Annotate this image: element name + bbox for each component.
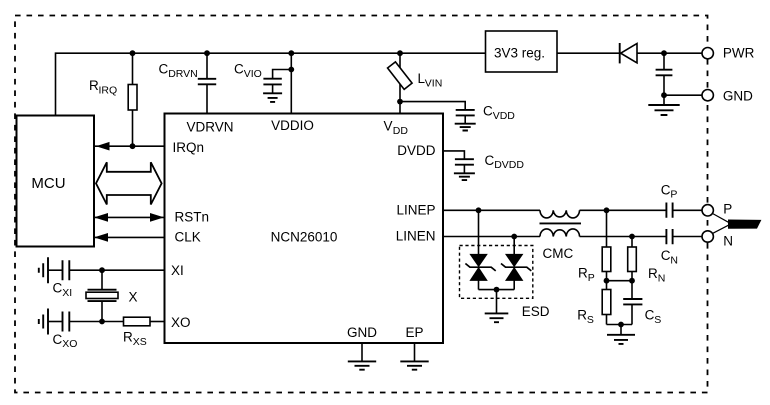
svg-text:C: C bbox=[485, 153, 495, 168]
capacitor CDRVN bbox=[206, 53, 208, 78]
arrowhead IRQn (into MCU) bbox=[96, 142, 110, 151]
ground (ESD) bbox=[496, 290, 498, 313]
svg-text:LINEN: LINEN bbox=[396, 229, 436, 244]
svg-text:IRQn: IRQn bbox=[173, 140, 205, 155]
svg-text:NCN26010: NCN26010 bbox=[271, 230, 338, 245]
arrowhead CLK (into MCU) bbox=[94, 233, 108, 242]
svg-text:MCU: MCU bbox=[31, 175, 65, 192]
terminal GND bbox=[702, 90, 713, 101]
capacitor CXI bbox=[48, 269, 62, 271]
node: rail-VDDIO junction bbox=[288, 50, 294, 56]
svg-text:XI: XI bbox=[62, 287, 72, 299]
capacitor CP bbox=[666, 203, 672, 218]
svg-text:DRVN: DRVN bbox=[168, 68, 198, 80]
svg-text:C: C bbox=[645, 308, 655, 323]
node: LINEN-ESD junction bbox=[511, 234, 517, 240]
wire: CLK line bbox=[95, 236, 165, 238]
svg-text:RSTn: RSTn bbox=[175, 210, 210, 225]
svg-text:C: C bbox=[661, 182, 671, 197]
capacitor CN bbox=[666, 229, 672, 244]
svg-text:VDRVN: VDRVN bbox=[186, 120, 233, 135]
svg-text:S: S bbox=[587, 314, 594, 326]
node: LINEN-RN junction bbox=[629, 234, 635, 240]
svg-text:R: R bbox=[578, 266, 588, 281]
svg-text:LINEP: LINEP bbox=[396, 202, 435, 217]
wire: IRQn line bbox=[95, 145, 165, 147]
svg-text:R: R bbox=[123, 330, 133, 345]
capacitor CDVDD with ground bbox=[443, 151, 464, 159]
capacitor CVDD with ground bbox=[400, 102, 465, 110]
node: RN tie junction bbox=[629, 278, 635, 284]
ground (PWR return) bbox=[663, 95, 665, 104]
ground (XI side, rotated) bbox=[39, 257, 48, 283]
node: ESD ground junction bbox=[494, 287, 500, 293]
node: CVIO tap junction bbox=[288, 67, 294, 73]
resistor RN bbox=[631, 237, 633, 248]
svg-text:R: R bbox=[648, 266, 658, 281]
svg-text:C: C bbox=[483, 104, 493, 119]
node: rail-CDRVN junction bbox=[204, 50, 210, 56]
svg-text:GND: GND bbox=[347, 325, 377, 340]
svg-text:VIN: VIN bbox=[425, 77, 443, 89]
svg-text:VDD: VDD bbox=[493, 110, 516, 122]
svg-text:N: N bbox=[670, 254, 678, 266]
wire: RP-RN tie bbox=[607, 280, 633, 282]
svg-text:XI: XI bbox=[171, 263, 184, 278]
svg-text:R: R bbox=[577, 308, 587, 323]
wire: regulator to PWR terminal bbox=[557, 52, 702, 54]
SPI bus double arrow bbox=[96, 162, 162, 204]
svg-text:PWR: PWR bbox=[723, 46, 755, 61]
diode D1 bbox=[619, 43, 621, 63]
node: LINEP-ESD junction bbox=[476, 207, 482, 213]
svg-text:C: C bbox=[661, 248, 671, 263]
TVS diode (N line) bbox=[513, 237, 515, 255]
svg-text:DVDD: DVDD bbox=[397, 143, 436, 158]
wire: MCU top to 3V3 supply rail bbox=[56, 53, 486, 115]
svg-text:R: R bbox=[89, 78, 99, 93]
arrowhead RSTn left bbox=[94, 213, 108, 222]
terminal PWR bbox=[702, 48, 713, 59]
ground (GND pin) bbox=[361, 343, 363, 361]
node: cap-ground junction bbox=[661, 92, 667, 98]
MCU U2 bbox=[17, 116, 95, 247]
wire: VDD column bbox=[399, 53, 401, 113]
node: rail-LVIN junction bbox=[397, 50, 403, 56]
wire: LINEP line bbox=[443, 209, 666, 211]
node: LINEP-RP junction bbox=[604, 207, 610, 213]
node: termination ground junction bbox=[618, 322, 624, 328]
svg-text:N: N bbox=[658, 272, 666, 284]
svg-text:CMC: CMC bbox=[543, 246, 574, 261]
node: LVIN-CVDD junction bbox=[397, 99, 403, 105]
resistor RIRQ bbox=[132, 53, 134, 146]
svg-text:C: C bbox=[159, 62, 169, 77]
TVS diode (P line) bbox=[478, 210, 480, 254]
svg-text:P: P bbox=[723, 201, 732, 216]
ground (EP pin) bbox=[414, 343, 416, 361]
inductor CMC (common-mode choke) bbox=[540, 210, 580, 218]
twisted pair cable bbox=[713, 214, 729, 234]
svg-text:P: P bbox=[588, 272, 595, 284]
node: RIRQ-IRQn junction bbox=[130, 143, 136, 149]
svg-text:GND: GND bbox=[723, 89, 753, 104]
svg-text:DVDD: DVDD bbox=[494, 159, 524, 171]
ground (XO side, rotated) bbox=[39, 309, 48, 335]
ground (termination) bbox=[620, 325, 622, 335]
svg-text:X: X bbox=[129, 290, 138, 305]
svg-text:ESD: ESD bbox=[522, 304, 550, 319]
svg-text:XO: XO bbox=[171, 315, 191, 330]
wire: GND terminal bbox=[664, 94, 702, 96]
NCN26010 U1 bbox=[165, 114, 444, 344]
svg-text:C: C bbox=[53, 281, 63, 296]
node: rail-RIRQ junction bbox=[130, 50, 136, 56]
terminal N bbox=[702, 231, 713, 242]
capacitor CS bbox=[623, 299, 642, 304]
svg-text:DD: DD bbox=[393, 125, 409, 137]
svg-text:VDDIO: VDDIO bbox=[271, 118, 314, 133]
ESD protection box (dashed) bbox=[460, 246, 533, 299]
inductor LVIN (ferrite bead) bbox=[388, 62, 413, 89]
regulator 3V3 reg bbox=[486, 31, 558, 72]
resistor RXS bbox=[124, 317, 151, 326]
svg-text:XO: XO bbox=[62, 338, 77, 350]
wire: RSTn line bbox=[95, 216, 164, 218]
node: diode-cap junction bbox=[661, 50, 667, 56]
crystal X bbox=[101, 270, 103, 289]
resistor RP bbox=[606, 210, 608, 247]
wire: RS-CS tie bbox=[607, 324, 633, 326]
svg-text:CLK: CLK bbox=[175, 230, 201, 245]
resistor RS bbox=[602, 290, 611, 315]
capacitor CVIO with ground bbox=[273, 70, 292, 79]
wire: VDDIO column bbox=[290, 53, 292, 113]
capacitor (PWR bulk) bbox=[663, 53, 665, 69]
svg-text:V: V bbox=[384, 119, 393, 134]
node: XI junction bbox=[99, 267, 105, 273]
svg-text:C: C bbox=[234, 62, 244, 77]
wire: ESD common bbox=[479, 289, 515, 291]
terminal P bbox=[702, 205, 713, 216]
svg-text:S: S bbox=[654, 314, 661, 326]
arrowhead RSTn right bbox=[150, 213, 164, 222]
node: XO junction bbox=[99, 319, 105, 325]
capacitor CXO bbox=[48, 321, 62, 323]
svg-text:IRQ: IRQ bbox=[99, 84, 118, 96]
svg-text:EP: EP bbox=[405, 325, 423, 340]
svg-text:P: P bbox=[670, 189, 677, 201]
wire: LINEN line bbox=[443, 236, 666, 238]
node: RP tie junction bbox=[604, 278, 610, 284]
svg-text:N: N bbox=[723, 234, 733, 249]
svg-text:VIO: VIO bbox=[244, 68, 262, 80]
svg-text:3V3 reg.: 3V3 reg. bbox=[494, 46, 545, 61]
svg-text:XS: XS bbox=[133, 336, 147, 348]
svg-text:C: C bbox=[53, 332, 63, 347]
